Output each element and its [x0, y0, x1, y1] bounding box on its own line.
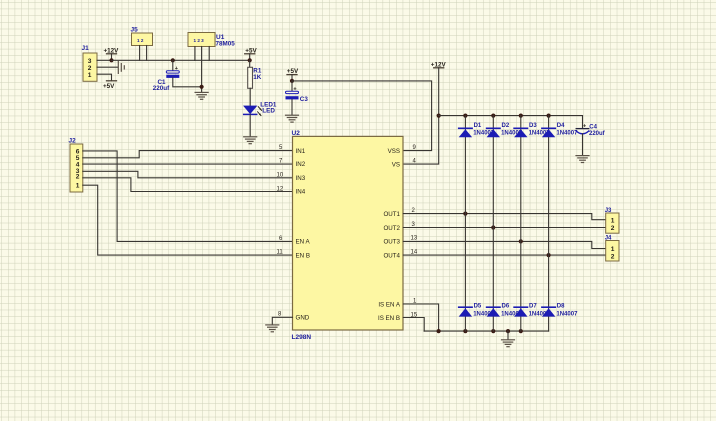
- svg-text:1: 1: [611, 217, 615, 224]
- svg-text:78M05: 78M05: [216, 40, 236, 47]
- ground LED1: [244, 137, 257, 144]
- svg-text:220uf: 220uf: [153, 85, 170, 92]
- diode D6: [487, 304, 523, 318]
- power port +5V (above R1): [245, 47, 258, 60]
- wire +5V to VSS (pin 9): [292, 81, 432, 151]
- junction bus/D2: [491, 114, 495, 118]
- junction OUT2/D2: [491, 225, 495, 229]
- svg-text:D5: D5: [474, 304, 482, 310]
- svg-text:10: 10: [277, 172, 284, 178]
- junction C1 top: [171, 58, 175, 62]
- svg-text:D8: D8: [557, 304, 565, 310]
- svg-text:1: 1: [611, 246, 615, 253]
- svg-text:OUT1: OUT1: [383, 211, 400, 218]
- svg-text:1 2: 1 2: [137, 38, 144, 43]
- svg-text:D2: D2: [502, 123, 510, 129]
- connector J5: [131, 27, 153, 46]
- svg-text:IS EN A: IS EN A: [378, 301, 401, 308]
- junction bus/ground: [506, 329, 510, 333]
- wire IS EN A to bottom bus: [403, 304, 438, 331]
- wire IS EN B to bottom bus: [403, 318, 424, 332]
- svg-text:IN1: IN1: [296, 148, 306, 155]
- svg-text:IN3: IN3: [296, 175, 306, 182]
- junction +12V / J1.3: [109, 58, 113, 62]
- svg-text:IS EN B: IS EN B: [378, 315, 400, 322]
- wire LED1 to ground: [249, 114, 251, 136]
- svg-text:VSS: VSS: [388, 148, 400, 155]
- diode D2: [487, 123, 523, 137]
- svg-text:J4: J4: [605, 235, 612, 241]
- wire D1 column: [464, 116, 466, 332]
- wire J2 pin2 to IN4: [83, 178, 293, 192]
- svg-text:L298N: L298N: [292, 334, 312, 341]
- svg-text:VS: VS: [392, 161, 400, 168]
- svg-text:1: 1: [76, 183, 80, 190]
- ground U1/C1: [195, 92, 208, 99]
- svg-text:IN2: IN2: [296, 161, 306, 168]
- diode D8: [542, 304, 578, 318]
- resistor R1: [248, 67, 262, 88]
- wire U1 output rail to R1 top: [195, 59, 250, 61]
- junction bus/D4: [547, 114, 551, 118]
- wire bottom bus: [424, 330, 548, 332]
- svg-text:+: +: [583, 124, 586, 130]
- power port +12V (left): [104, 47, 120, 60]
- wire J1 pin2 to chassis ground: [97, 66, 118, 68]
- wire J2 pin6 to EN A: [83, 151, 293, 242]
- svg-text:J1: J1: [82, 45, 90, 52]
- capacitor C3: [286, 87, 309, 103]
- svg-text:OUT2: OUT2: [383, 225, 400, 232]
- wire C1 bottom to ground net: [173, 78, 202, 87]
- junction bus/D7: [519, 329, 523, 333]
- svg-text:OUT4: OUT4: [383, 252, 400, 259]
- power port +5V (below J1): [103, 81, 117, 90]
- wire U2 GND pin to ground: [272, 317, 292, 324]
- wire OUT1 to J3 pin1: [403, 214, 605, 220]
- wire C4 to ground: [582, 134, 584, 155]
- junction OUT1/D1: [463, 212, 467, 216]
- wire bus to C4: [582, 116, 584, 129]
- svg-text:1: 1: [88, 72, 92, 79]
- LED LED1: [244, 102, 277, 116]
- svg-text:LED: LED: [262, 108, 275, 115]
- wire D2 column: [492, 116, 494, 332]
- connector J4: [605, 235, 619, 261]
- diode D7: [514, 304, 550, 318]
- svg-text:1N4007: 1N4007: [556, 311, 578, 317]
- wire R1 to LED1: [249, 88, 251, 106]
- svg-text:J3: J3: [605, 208, 612, 214]
- junction OUT3/D3: [519, 239, 523, 243]
- wire J1 pin1 to +5V port: [97, 74, 112, 81]
- wire OUT4 to J4 pin2: [403, 254, 605, 256]
- wire J5 pin1 to rail: [139, 46, 141, 61]
- svg-text:D6: D6: [502, 304, 510, 310]
- svg-text:OUT3: OUT3: [383, 239, 400, 246]
- svg-text:IN4: IN4: [296, 189, 306, 196]
- junction bus/D3: [519, 114, 523, 118]
- diode D4: [542, 123, 578, 137]
- junction bus/D5: [463, 329, 467, 333]
- chassis ground (rotated earth): [118, 61, 124, 73]
- wire +12V rail to U1 input: [112, 59, 195, 61]
- svg-text:11: 11: [277, 250, 284, 256]
- op-amp U2 (driver IC L298N): [292, 130, 404, 341]
- svg-text:GND: GND: [296, 315, 310, 322]
- diode D5: [459, 304, 495, 318]
- wire diode top bus: [439, 115, 583, 117]
- ground diode bus: [502, 340, 515, 347]
- junction bus/D6: [491, 329, 495, 333]
- svg-text:D3: D3: [529, 123, 537, 129]
- capacitor C1: [153, 60, 180, 92]
- ground C4: [576, 156, 589, 163]
- wire J5 pin2 to rail: [146, 46, 148, 61]
- svg-text:D7: D7: [529, 304, 537, 310]
- junction U1 ground: [200, 85, 204, 89]
- svg-text:C4: C4: [589, 124, 597, 130]
- wire J2 pin3 to IN3: [83, 171, 293, 178]
- svg-text:2: 2: [611, 253, 615, 260]
- wire rail to R1: [249, 60, 251, 67]
- svg-text:D1: D1: [474, 123, 482, 129]
- capacitor C4: [576, 124, 605, 137]
- wire +12V to VS (pin 4): [403, 68, 438, 164]
- junction +5V / C3: [290, 79, 294, 83]
- diode D3: [514, 123, 550, 137]
- connector J1: [82, 45, 98, 81]
- svg-text:1 2 3: 1 2 3: [194, 38, 205, 43]
- svg-text:J2: J2: [69, 138, 77, 145]
- svg-text:12: 12: [277, 186, 284, 192]
- junction R1 top: [248, 58, 252, 62]
- svg-text:+5V: +5V: [103, 83, 115, 90]
- svg-text:1K: 1K: [253, 74, 262, 81]
- wire OUT2 to J3 pin2: [403, 227, 605, 229]
- ground C3: [286, 115, 299, 122]
- junction bus/D1: [463, 114, 467, 118]
- wire OUT3 to J4 pin1: [403, 241, 605, 248]
- connector J2: [69, 138, 83, 193]
- wire C3 to ground: [291, 99, 293, 114]
- wire +5V to C3: [291, 81, 293, 91]
- wire D3 column: [520, 116, 522, 332]
- wire U1 pin2 (gnd) down: [201, 47, 203, 92]
- wire J2 pin4 to IN2: [83, 163, 293, 165]
- connector J3: [605, 208, 619, 233]
- wire U1 pin3 to +5V rail: [208, 47, 210, 61]
- wire J2 pin1 to EN B: [83, 185, 293, 255]
- diode D1: [459, 123, 495, 137]
- wire J1 pin3 to +12V rail: [97, 59, 112, 61]
- voltage regulator U1: [188, 33, 235, 48]
- wire J2 pin5 to IN1: [83, 151, 293, 158]
- junction OUT4/D4: [547, 253, 551, 257]
- wire bus ground stub: [507, 331, 509, 339]
- svg-text:EN A: EN A: [296, 239, 311, 246]
- svg-text:J5: J5: [131, 27, 139, 34]
- junction bus/ISENA: [437, 329, 441, 333]
- ground U2: [266, 325, 279, 332]
- power port +12V (right): [431, 61, 447, 68]
- svg-text:EN B: EN B: [296, 252, 310, 259]
- svg-text:2: 2: [76, 174, 80, 181]
- power port +5V (above C3): [287, 68, 299, 81]
- svg-text:2: 2: [611, 225, 615, 232]
- svg-text:U2: U2: [292, 130, 301, 137]
- svg-text:D4: D4: [557, 123, 565, 129]
- svg-text:1N4007: 1N4007: [556, 130, 578, 136]
- wire D4 column: [548, 116, 550, 332]
- svg-text:2: 2: [88, 65, 92, 72]
- svg-text:220uf: 220uf: [589, 131, 606, 137]
- svg-text:C3: C3: [300, 96, 309, 103]
- svg-text:13: 13: [411, 236, 418, 242]
- wire U1 pin1 to rail: [194, 47, 196, 61]
- junction +12V / diode bus: [437, 114, 441, 118]
